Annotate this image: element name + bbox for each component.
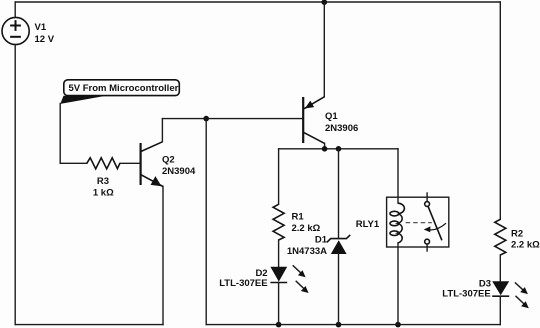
label Q2 2N3904 [162,154,196,176]
wire D3 to bottom rail [499,296,501,324]
wire R1 top lead [278,149,280,205]
wire R2 branch from top rail down [499,2,501,219]
wire Q1 emitter vertical from top rail [323,2,325,97]
svg-text:1 kΩ: 1 kΩ [93,188,114,199]
svg-text:R2: R2 [511,228,523,239]
wire bottom-left rail [15,324,163,326]
wire mid bus from R1 branch to relay branch [279,148,398,150]
svg-text:2.2 kΩ: 2.2 kΩ [511,240,540,251]
label D3 LTL-307EE [442,278,491,299]
svg-text:R3: R3 [97,176,109,187]
svg-text:2N3904: 2N3904 [162,166,196,177]
transistor Q2 [141,142,163,187]
svg-text:Q2: Q2 [162,154,175,165]
relay switch motion arrow [424,223,446,232]
svg-text:RLY1: RLY1 [356,219,380,230]
label Q1 2N3906 [325,111,358,134]
relay dashed link line [406,222,432,224]
relay switch bottom pin stub [426,244,428,251]
resistor R1 [273,204,284,240]
wire R3 to Q2 base [120,162,140,164]
transistor Q1 [303,97,324,144]
svg-text:Q1: Q1 [325,111,338,122]
node dot bottom rail at D1 branch [336,322,342,328]
wire relay coil top lead from mid bus [397,149,399,203]
resistor R2 [495,219,506,255]
zener diode D1 [327,235,350,254]
wire V1 top lead [14,2,16,17]
svg-text:LTL-307EE: LTL-307EE [442,289,490,300]
resistor R3 [87,158,120,169]
svg-text:LTL-307EE: LTL-307EE [219,278,267,289]
relay switch top pin stub [426,193,428,202]
node dot bottom rail at R1/D2 branch [276,322,282,328]
node dot bottom rail at relay coil branch [395,322,401,328]
svg-text:2N3906: 2N3906 [325,123,358,134]
label D1 1N4733A [287,235,328,257]
svg-text:V1: V1 [35,22,47,33]
svg-text:R1: R1 [292,211,305,222]
LED D3 emission arrows [515,283,528,308]
node junction dot on base bus [203,116,209,122]
wire Q1 collector short vertical to mid bus [324,143,326,148]
wire R1 to D2 [278,240,280,267]
wire top rail from V1 to R2 branch [15,1,500,3]
wire Q2 emitter vertical [162,186,164,324]
svg-text:D1: D1 [315,235,328,246]
voltage source V1 [2,17,29,44]
label V1 value 12 V [35,22,55,45]
svg-text:1N4733A: 1N4733A [287,246,327,257]
relay coil [390,203,404,243]
wire bottom-right rail [206,324,500,326]
wire from callout pointer down to R3 [60,104,87,164]
label R2 value 2.2 kOhm [511,228,540,250]
svg-text:5V From Microcontroller: 5V From Microcontroller [69,83,179,94]
node dot mid bus at D1 branch [336,146,342,152]
LED D2 emission arrows [293,266,308,293]
relay switch blade [428,206,442,240]
wire D2 to bottom rail [278,283,280,325]
label R1 value 2.2 kOhm [292,211,321,233]
svg-text:12 V: 12 V [35,34,55,45]
node dot mid bus at Q1 collector [322,146,328,152]
LED D3 [492,281,509,296]
label D2 LTL-307EE [219,268,267,289]
relay switch top contact circle [425,202,430,207]
relay switch bottom contact circle [425,239,430,244]
LED D2 [270,267,287,283]
wire Q2 collector up to base bus [161,119,163,142]
wire relay coil bottom lead to bottom rail [397,243,399,325]
wire base bus from Q2 collector to Q1 base [162,118,302,120]
wire vertical from base bus node down to bottom rail [205,119,207,325]
annotation callout 5V From Microcontroller [60,80,179,104]
node junction dot at top rail / Q1 emitter [322,0,328,5]
wire D1 branch top lead [338,149,340,239]
label RLY1 [356,219,380,230]
svg-text:2.2 kΩ: 2.2 kΩ [292,223,321,234]
wire D1 to bottom rail [338,254,340,325]
wire V1 bottom lead down left side [14,45,16,325]
relay RLY1 box [387,197,449,247]
wire R2 to D3 [499,255,501,281]
label R3 value 1 kOhm [93,176,114,199]
